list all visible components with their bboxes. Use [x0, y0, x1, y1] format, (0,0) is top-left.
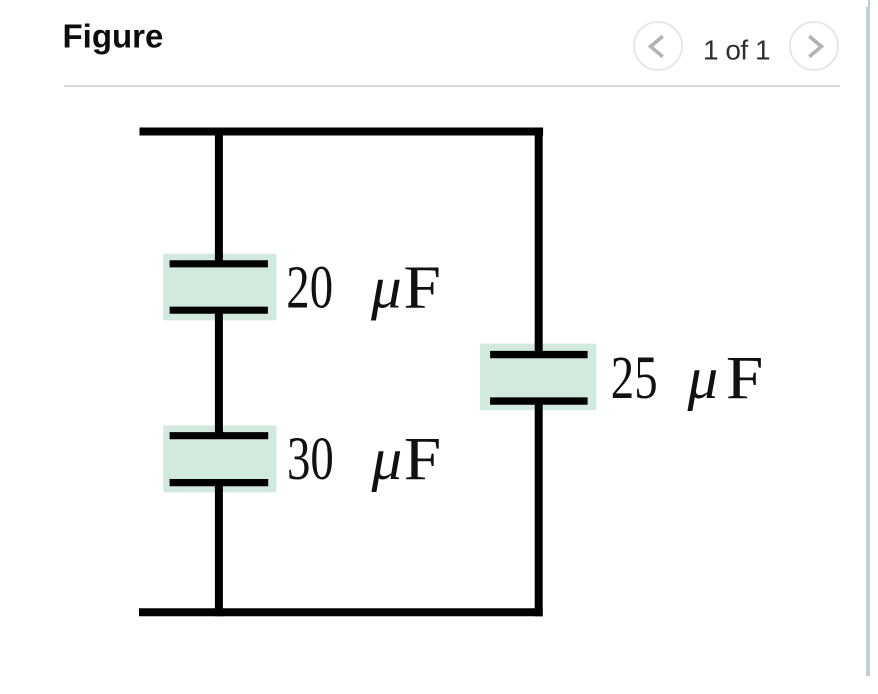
prev chevron	[633, 21, 683, 71]
svg-text:F: F	[404, 425, 441, 493]
label 25 uF	[611, 343, 764, 412]
svg-text:20: 20	[286, 252, 333, 321]
capacitor C1 plates	[170, 264, 268, 310]
wire bottom rail	[139, 608, 543, 616]
svg-text:F: F	[404, 253, 441, 321]
label 20 uF	[286, 252, 441, 321]
wire left branch lower segment	[215, 483, 223, 616]
next chevron	[789, 21, 839, 71]
svg-text:μ: μ	[370, 427, 402, 493]
scrollbar thumb	[866, 7, 870, 676]
wire right branch upper segment	[535, 128, 543, 355]
label 30 uF	[287, 424, 441, 493]
capacitor C2 plates	[170, 436, 269, 483]
scrollbar track top	[868, 0, 870, 8]
svg-text:F: F	[726, 344, 763, 412]
svg-text:25: 25	[611, 343, 658, 412]
svg-text:μ: μ	[686, 346, 718, 412]
capacitor C2 30uF highlight	[163, 425, 276, 492]
wire top rail	[140, 128, 544, 136]
wire left branch upper segment	[215, 128, 223, 264]
next button	[789, 21, 839, 71]
svg-text:30: 30	[287, 424, 334, 493]
header title "Figure"	[0, 0, 878, 100]
wire left branch middle segment	[215, 311, 223, 435]
prev button	[633, 21, 683, 71]
capacitor C3 plates	[490, 355, 587, 402]
capacitor C1 20uF highlight	[163, 254, 276, 321]
header separator rule	[64, 85, 840, 88]
capacitor C3 25uF highlight	[480, 344, 596, 411]
svg-text:μ: μ	[370, 255, 402, 321]
wire right branch lower segment	[535, 401, 543, 616]
